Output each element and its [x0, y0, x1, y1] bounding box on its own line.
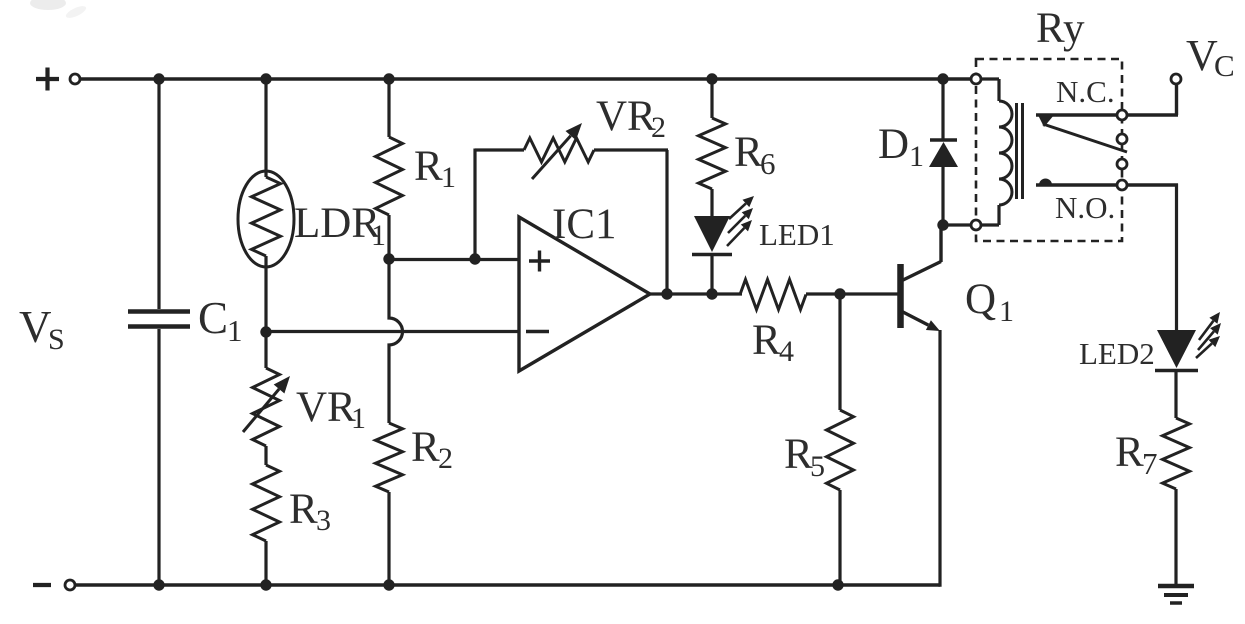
- node top rail / R6: [706, 73, 717, 84]
- wire op-amp output: [650, 292, 742, 295]
- svg-text:R: R: [784, 431, 813, 478]
- wire R6 top: [710, 79, 713, 118]
- label Vs: [19, 302, 65, 356]
- wire R2 bottom: [387, 492, 390, 585]
- wire LED1 bottom: [710, 256, 713, 294]
- wire feedback right: [665, 150, 668, 294]
- label R6: [734, 129, 776, 181]
- wire LDR1 bottom: [264, 256, 267, 332]
- label Q1: [965, 276, 1014, 328]
- svg-text:N.O.: N.O.: [1055, 190, 1115, 225]
- label R4: [752, 317, 794, 368]
- node top rail / C1: [153, 73, 164, 84]
- wire N.C. to Vc: [1127, 85, 1178, 115]
- label R2: [411, 424, 453, 475]
- relay core: [1017, 103, 1023, 199]
- wire D1 top: [941, 79, 944, 141]
- plus terminal symbol: [36, 68, 59, 91]
- Q1 collector: [901, 225, 941, 281]
- terminal N.C.: [1117, 110, 1127, 120]
- wire R7-ground: [1174, 489, 1177, 586]
- node bottom rail / R5: [832, 579, 843, 590]
- terminal N.O.: [1117, 180, 1127, 190]
- LED LED2: [1155, 330, 1198, 371]
- potentiometer VR2: [524, 138, 594, 162]
- wire C1 bottom: [157, 329, 160, 585]
- N.C. contact line: [1036, 113, 1117, 116]
- wire op-amp inverting input: [266, 330, 519, 333]
- LED1 arrows: [727, 196, 754, 246]
- label LED1: [759, 217, 835, 252]
- node collector/D1: [937, 219, 948, 230]
- resistor R3: [253, 465, 280, 541]
- svg-text:1: 1: [441, 161, 456, 194]
- op-amp plus sign: [529, 251, 550, 272]
- op-amp minus sign: [526, 330, 549, 333]
- wire R1R2 with hop over inverting wire: [389, 259, 403, 423]
- label R7: [1115, 429, 1158, 481]
- resistor R7: [1163, 418, 1190, 489]
- wire top rail: [80, 77, 971, 80]
- svg-text:LDR: LDR: [294, 200, 380, 247]
- minus terminal symbol: [33, 583, 51, 587]
- svg-text:D: D: [878, 121, 909, 168]
- wire emitter down: [938, 330, 941, 587]
- label R1: [414, 143, 456, 194]
- wire feedback top right: [594, 148, 668, 151]
- wire R1 top: [387, 79, 390, 137]
- plus terminal circle: [70, 74, 80, 84]
- wire R4-base: [806, 292, 899, 295]
- wire LDR1 top: [264, 79, 267, 177]
- svg-text:2: 2: [651, 111, 666, 144]
- wire C1 top: [157, 79, 160, 309]
- label D1: [878, 121, 924, 173]
- resistor R6: [699, 118, 726, 189]
- relay coil: [999, 101, 1012, 205]
- svg-text:V: V: [19, 302, 52, 352]
- wire VR1 top: [264, 332, 267, 368]
- svg-text:1: 1: [909, 140, 924, 173]
- resistor R1: [376, 137, 403, 215]
- label VR2: [596, 93, 666, 144]
- LED2 arrows: [1196, 312, 1221, 358]
- capacitor C1: [128, 312, 190, 327]
- node R5 junction: [834, 288, 845, 299]
- node top rail / LDR1: [260, 73, 271, 84]
- svg-text:IC1: IC1: [552, 201, 617, 248]
- VR2 arrow: [532, 123, 582, 179]
- relay armature: [1043, 124, 1127, 152]
- wire coil top: [981, 79, 999, 101]
- minus terminal circle: [65, 580, 75, 590]
- node bottom rail / LDR branch: [260, 579, 271, 590]
- wire bottom rail: [75, 583, 940, 586]
- svg-text:VR: VR: [296, 384, 356, 431]
- wire R5 bottom: [838, 490, 841, 585]
- svg-text:1: 1: [351, 402, 366, 435]
- node top rail / D1: [937, 73, 948, 84]
- svg-text:LED2: LED2: [1079, 336, 1155, 371]
- svg-text:6: 6: [760, 146, 776, 181]
- relay coil terminal top: [971, 74, 981, 84]
- node bottom rail / R2: [383, 579, 394, 590]
- node non-inverting junction R1: [383, 253, 394, 264]
- node feedback junction: [469, 253, 480, 264]
- svg-text:2: 2: [438, 442, 453, 475]
- wire feedback left: [473, 149, 476, 260]
- svg-text:1: 1: [371, 219, 386, 252]
- svg-text:R: R: [411, 424, 440, 471]
- N.O. contact line: [1036, 183, 1117, 186]
- resistor R4: [740, 280, 806, 310]
- label LDR1: [294, 200, 386, 252]
- svg-text:C: C: [1214, 48, 1235, 83]
- label Ry: [1036, 5, 1085, 52]
- terminal common b: [1117, 159, 1127, 169]
- LDR LDR1: [238, 171, 294, 267]
- node top rail / R1: [383, 73, 394, 84]
- svg-text:Ry: Ry: [1036, 5, 1085, 52]
- node inverting input junction: [260, 326, 271, 337]
- svg-text:7: 7: [1142, 446, 1158, 481]
- svg-text:LED1: LED1: [759, 217, 835, 252]
- svg-text:1: 1: [227, 313, 243, 348]
- wire R5 top: [838, 294, 841, 410]
- label Vc: [1186, 31, 1235, 83]
- node feedback/output: [661, 288, 672, 299]
- wire R6-LED1: [710, 189, 713, 217]
- label R3: [289, 486, 331, 537]
- svg-text:5: 5: [810, 450, 825, 483]
- wire feedback top left: [475, 148, 524, 151]
- label IC1: [552, 201, 617, 248]
- svg-text:4: 4: [779, 335, 794, 368]
- N.O. contact pad: [1039, 179, 1052, 185]
- relay coil terminal bottom: [971, 220, 981, 230]
- Vc terminal circle: [1171, 74, 1181, 84]
- op-amp IC1: [519, 217, 650, 371]
- svg-text:R: R: [734, 129, 763, 176]
- wire coil bottom: [981, 205, 999, 225]
- resistor R5: [827, 410, 854, 490]
- label LED2: [1079, 336, 1155, 371]
- wire op-amp non-inverting input: [389, 258, 519, 261]
- LED LED1: [692, 216, 732, 255]
- Q1 emitter: [901, 311, 940, 331]
- svg-text:VR: VR: [596, 93, 656, 140]
- svg-text:R: R: [414, 143, 443, 190]
- label N.O.: [1055, 190, 1115, 225]
- node bottom rail / C1: [153, 579, 164, 590]
- relay Ry dashed box: [976, 59, 1122, 241]
- label N.C.: [1056, 74, 1115, 109]
- svg-text:3: 3: [316, 504, 331, 537]
- node LED1/output: [706, 288, 717, 299]
- label VR1: [296, 384, 366, 435]
- VR1 arrow: [243, 376, 290, 432]
- terminal common a: [1117, 134, 1127, 144]
- svg-text:1: 1: [999, 295, 1014, 328]
- svg-text:R: R: [1115, 429, 1144, 476]
- svg-text:C: C: [198, 293, 228, 343]
- wire R3 bottom: [264, 541, 267, 585]
- wire D1 bottom: [941, 167, 944, 225]
- ground: [1158, 586, 1194, 603]
- transistor Q1 base bar: [897, 264, 904, 328]
- label C1: [198, 293, 243, 348]
- wire D1-coil: [943, 223, 971, 226]
- potentiometer VR1: [253, 368, 280, 446]
- diode D1: [929, 140, 958, 167]
- wire R1-node: [387, 215, 390, 259]
- svg-text:N.C.: N.C.: [1056, 74, 1115, 109]
- label R5: [784, 431, 825, 483]
- resistor R2: [376, 423, 403, 492]
- svg-text:Q: Q: [965, 276, 996, 323]
- svg-text:R: R: [752, 317, 781, 364]
- svg-text:S: S: [48, 323, 65, 356]
- wire LED2-R7: [1174, 372, 1177, 418]
- wire VR1-R3: [264, 446, 267, 465]
- svg-text:R: R: [289, 486, 318, 533]
- wire N.O. to LED2: [1127, 184, 1178, 332]
- N.C. contact pad: [1038, 115, 1054, 127]
